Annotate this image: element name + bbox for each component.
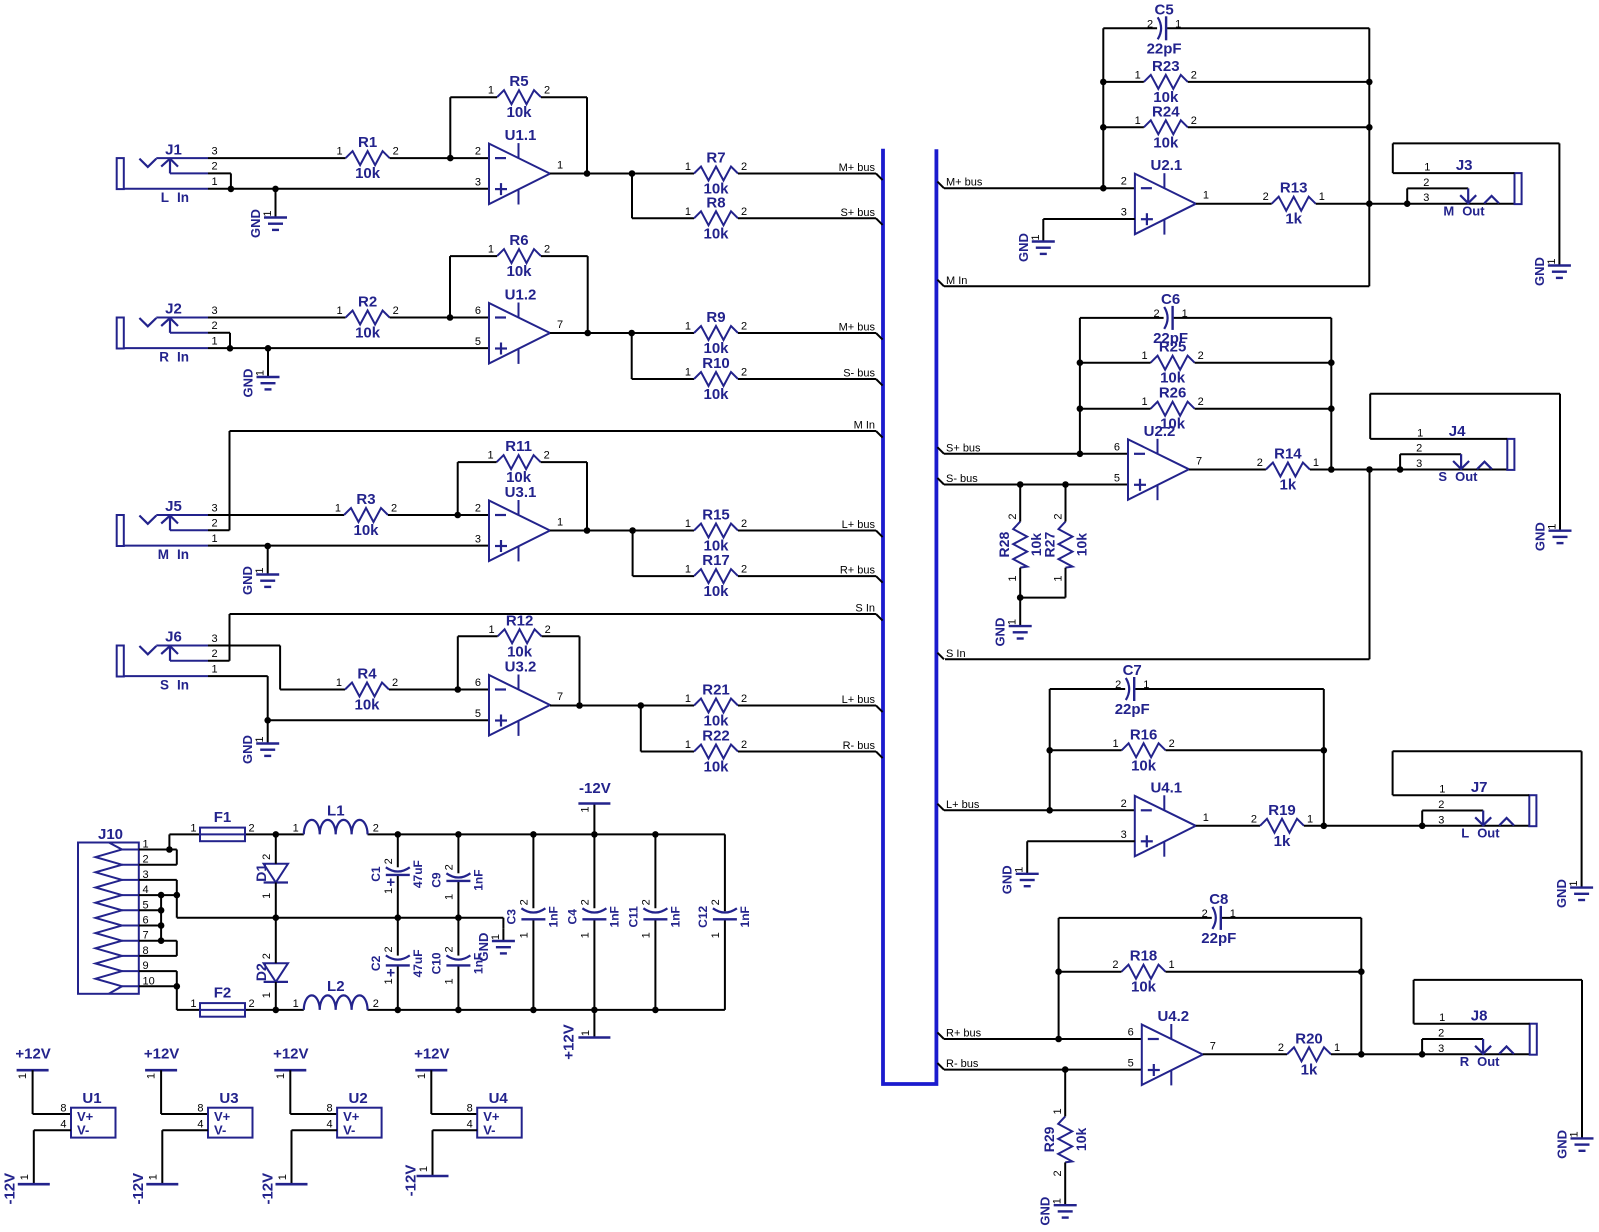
svg-text:2: 2 [1263,191,1269,203]
wire D1 bottom [275,883,277,918]
svg-text:1k: 1k [1274,833,1291,850]
op-amp U4.2 [1128,1008,1216,1085]
svg-text:-12V: -12V [130,1173,147,1205]
svg-text:8: 8 [467,1103,473,1115]
wire feedback left U3.1 [457,462,459,515]
svg-text:2: 2 [1112,959,1118,971]
wire R12 pin2 [542,635,580,637]
svg-text:3: 3 [1416,458,1422,470]
svg-text:J5: J5 [165,498,182,515]
svg-text:6: 6 [1128,1027,1134,1039]
svg-text:R1: R1 [358,134,377,151]
junction J3 step [1404,200,1411,207]
svg-text:10k: 10k [1131,979,1157,996]
wire C10 column [457,918,459,1010]
svg-text:R17: R17 [702,552,730,569]
svg-text:1: 1 [293,998,299,1010]
junction R16 right [1321,747,1328,754]
svg-text:U2.2: U2.2 [1144,423,1176,440]
svg-text:3: 3 [475,177,481,189]
wire R8 to bus S+ [738,217,876,219]
svg-text:2: 2 [1121,176,1127,188]
wire M In to bus [230,430,877,432]
svg-text:+12V: +12V [15,1046,50,1063]
svg-text:M+ bus: M+ bus [839,322,876,334]
svg-text:47uF: 47uF [411,860,425,888]
net labels left bus [839,162,876,752]
junction C10 bottom [455,1007,462,1014]
wire S In riser [229,614,231,661]
svg-text:1: 1 [1334,1042,1340,1054]
svg-text:47uF: 47uF [411,949,425,977]
svg-text:1: 1 [1424,162,1430,174]
junction J10 pin10 [174,983,181,990]
svg-text:10k: 10k [506,263,532,280]
junction J1 pin1 [228,186,235,193]
resistor R4 [336,666,398,714]
svg-text:1: 1 [146,1073,158,1079]
junction C9 bottom [455,914,462,921]
wire R22 to bus R- [738,751,876,753]
wire D2 bottom [275,982,277,1010]
svg-text:U2: U2 [349,1090,368,1107]
svg-text:S- bus: S- bus [946,473,978,485]
svg-text:2: 2 [1198,350,1204,362]
junction J10 pin4 b [174,892,181,899]
svg-text:R13: R13 [1280,180,1308,197]
svg-text:2: 2 [261,854,273,860]
svg-text:2: 2 [383,946,395,952]
svg-text:C11: C11 [627,906,641,928]
fuse F2 [190,984,254,1016]
wire U4.2 out to R20 [1203,1053,1287,1055]
resistor R29 [1041,1108,1089,1176]
output jack J7 (L Out) [1393,751,1594,908]
junction J5 gnd tap [264,543,271,550]
resistor R1 [336,134,398,182]
svg-text:S In: S In [855,603,875,615]
wire feedback right U2.1 [1368,28,1370,286]
svg-text:U3: U3 [219,1090,238,1107]
svg-text:1: 1 [1141,350,1147,362]
svg-text:2: 2 [249,822,255,834]
wire U2.1 pin3 [1043,218,1135,220]
svg-text:C9: C9 [430,872,444,888]
resistor R13 [1263,180,1325,228]
junction R29 top [1062,1066,1069,1073]
svg-text:2: 2 [518,899,530,905]
capacitor C7 [1115,662,1150,718]
svg-text:3: 3 [1438,814,1444,826]
svg-text:V-: V- [343,1123,355,1138]
input jack J6 (S In) [117,629,218,693]
capacitor C2 [369,946,425,984]
wire feedback left U3.2 [457,636,459,689]
svg-text:2: 2 [544,244,550,256]
wire C2 column [397,918,399,1010]
junction U1.1 out branch [629,170,636,177]
resistor R18 [1112,948,1174,996]
junction U3.1 out branch [629,527,636,534]
svg-text:1: 1 [254,567,266,573]
svg-text:GND: GND [241,369,256,398]
svg-text:1: 1 [518,932,530,938]
svg-text:C10: C10 [430,952,444,974]
resistor R16 [1112,726,1174,774]
wire feedback left U2.2 [1079,318,1081,454]
svg-text:R29: R29 [1041,1126,1057,1152]
op-amp U4.1 [1121,779,1209,856]
svg-text:1: 1 [1175,18,1181,30]
ground GND (U2.1 pin3) [1016,219,1055,262]
svg-text:2: 2 [545,624,551,636]
power flag -12V (rail) [578,780,610,834]
capacitor C11 [627,899,683,938]
svg-text:3: 3 [475,534,481,546]
junction C4 top [591,831,598,838]
junction U2.2 fb [1077,451,1084,458]
svg-text:3: 3 [1121,829,1127,841]
svg-text:5: 5 [1114,472,1120,484]
svg-text:2: 2 [741,161,747,173]
svg-text:10k: 10k [703,225,729,242]
svg-text:2: 2 [1438,799,1444,811]
resistor R3 [335,491,397,539]
svg-text:1: 1 [190,822,196,834]
svg-text:1: 1 [1546,258,1558,264]
svg-text:1: 1 [1141,396,1147,408]
svg-text:10k: 10k [353,522,379,539]
svg-text:1: 1 [1568,881,1580,887]
svg-text:C3: C3 [505,909,519,925]
wire J5 ring [208,529,230,531]
svg-text:1: 1 [685,564,691,576]
svg-text:1: 1 [1439,784,1445,796]
capacitor C10 [430,946,486,984]
junction R26 left [1077,405,1084,412]
svg-text:7: 7 [1196,455,1202,467]
svg-text:1: 1 [1313,457,1319,469]
svg-text:2: 2 [1251,813,1257,825]
wire R- bus to U4.2 pin5 [944,1069,1142,1071]
wire R1 to U1.1 pin2 [390,157,489,159]
wire R17 to bus R+ [738,575,876,577]
svg-text:1: 1 [1030,234,1042,240]
svg-text:10k: 10k [1153,134,1179,151]
junction U1.2 out branch [628,330,635,337]
svg-text:R5: R5 [509,73,528,90]
resistor R12 [488,612,550,660]
svg-text:M+ bus: M+ bus [839,162,876,174]
svg-text:1: 1 [487,450,493,462]
svg-text:6: 6 [475,677,481,689]
wire feedback right U2.2 [1330,318,1332,470]
svg-text:4: 4 [60,1118,66,1130]
junction J2 pin1 [227,345,234,352]
svg-text:1: 1 [1182,308,1188,320]
wire R26 pin2 [1195,408,1332,410]
resistor R24 [1135,103,1197,151]
junction D1 mid [273,914,280,921]
junction U3.2 out fb [576,702,583,709]
svg-text:3: 3 [212,503,218,515]
resistor R28 [996,514,1044,582]
wire M+ bus to U2.1 pin2 [944,187,1135,189]
wire R23 pin2 [1188,81,1370,83]
wire J5 sleeve to U3.1 pin3 [208,545,489,547]
junction R25 left [1077,359,1084,366]
svg-text:M: M [158,547,169,562]
svg-text:1: 1 [1014,867,1026,873]
svg-text:In: In [177,350,189,365]
wire S- bus to U2.2 pin5 [944,484,1128,486]
wire R25 pin1 [1080,362,1151,364]
svg-text:5: 5 [1128,1058,1134,1070]
svg-text:U4.1: U4.1 [1150,779,1182,796]
svg-text:1: 1 [490,934,502,940]
svg-text:R28: R28 [996,532,1012,558]
wire C8 top row [1059,917,1362,919]
wire R29 top [1064,1070,1066,1117]
junction out fb U4.1 [1321,823,1328,830]
svg-text:1: 1 [383,888,395,894]
resistor R15 [685,507,747,555]
svg-text:L1: L1 [327,802,345,819]
wire J6 sleeve to U3.2 pin5 [208,676,489,720]
junction R23 left [1100,79,1107,86]
bus (vertical signal bus) [883,149,936,1084]
wire feedback right U1.1 [586,97,588,173]
svg-text:1: 1 [557,517,563,529]
svg-text:V-: V- [77,1123,89,1138]
svg-text:1: 1 [293,822,299,834]
svg-text:2: 2 [1169,738,1175,750]
svg-text:J3: J3 [1456,157,1473,174]
wire U3.2 output [550,705,694,707]
wire S In to bus [230,613,877,615]
svg-text:-12V: -12V [402,1165,419,1197]
svg-text:U4.2: U4.2 [1157,1008,1189,1025]
capacitor C8 [1201,891,1236,947]
wire U4.1 pin3 [1027,840,1135,842]
wire R7 to bus M+ [738,173,876,175]
svg-text:R20: R20 [1295,1030,1323,1047]
svg-text:S+ bus: S+ bus [946,442,981,454]
junction C11 bottom [652,1007,659,1014]
svg-text:R: R [159,350,169,365]
svg-text:1k: 1k [1280,477,1297,494]
wire U2.1 out to R13 [1196,203,1272,205]
resistor R11 [487,438,549,486]
junction F2/D2/L2 [273,1007,280,1014]
svg-text:R2: R2 [358,294,377,311]
svg-text:2: 2 [741,518,747,530]
svg-text:1: 1 [488,624,494,636]
op-amp U2.1 [1121,157,1209,234]
junction out fb U2.1 [1366,200,1373,207]
svg-text:4: 4 [467,1118,473,1130]
svg-text:1: 1 [1417,427,1423,439]
svg-text:1k: 1k [1285,211,1302,228]
svg-text:GND: GND [248,209,263,238]
svg-text:R8: R8 [706,194,725,211]
svg-text:V+: V+ [343,1109,360,1124]
junction C4 bottom [591,1007,598,1014]
svg-text:C12: C12 [696,905,710,927]
junction U3.1 out fb [584,527,591,534]
wire J10 pin3 [139,880,177,895]
svg-text:Out: Out [1477,1054,1500,1069]
input jack J5 (M In) [117,498,218,562]
junction J2 gnd tap [265,345,272,352]
junction J8 step [1419,1051,1426,1058]
wire J10 pin9 [139,971,177,986]
wire R14 to J4 [1310,469,1507,471]
svg-text:In: In [177,678,189,693]
wire J2 ring to sleeve [208,333,230,349]
svg-text:M+ bus: M+ bus [946,177,983,189]
inductor L1 [293,802,379,834]
svg-text:1: 1 [443,978,455,984]
ground GND (supply) [476,929,515,962]
svg-text:U2.1: U2.1 [1151,157,1183,174]
svg-text:R27: R27 [1042,532,1058,558]
wire J2 tip to R2 [208,317,346,319]
svg-text:10k: 10k [354,697,380,714]
resistor R8 [685,194,747,242]
resistor R5 [488,73,550,121]
wire R11 pin2 [541,461,587,463]
junction U3.1 feedback [454,512,461,519]
wire J10 pin8 [139,955,177,957]
svg-text:L+ bus: L+ bus [842,694,876,706]
svg-text:R+ bus: R+ bus [946,1028,982,1040]
svg-text:1: 1 [416,1073,428,1079]
svg-text:1: 1 [335,503,341,515]
svg-text:7: 7 [557,319,563,331]
svg-text:1: 1 [212,533,218,545]
svg-text:S: S [160,678,169,693]
wire C3 column [532,834,534,1010]
svg-text:1: 1 [1052,1198,1064,1204]
svg-text:Out: Out [1455,469,1478,484]
junction J1 gnd tap [272,186,279,193]
svg-text:J6: J6 [165,629,182,646]
wire R12 pin1 [458,635,498,637]
svg-text:1: 1 [254,736,266,742]
svg-text:8: 8 [326,1103,332,1115]
resistor R22 [685,728,747,776]
svg-text:R26: R26 [1159,385,1187,402]
resistor R19 [1251,802,1313,850]
resistor R20 [1278,1030,1340,1078]
wire L+ bus to U4.1 pin2 [944,809,1135,811]
diode D1 [253,854,288,899]
svg-text:22pF: 22pF [1147,40,1182,57]
svg-text:V+: V+ [77,1109,94,1124]
svg-text:J8: J8 [1471,1008,1488,1025]
svg-text:2: 2 [1198,396,1204,408]
svg-text:10k: 10k [1074,533,1090,557]
svg-text:1: 1 [1203,812,1209,824]
svg-text:1: 1 [580,1030,592,1036]
junction R28 top [1017,481,1024,488]
wire S In feedback vertical [1369,470,1371,660]
svg-text:1nF: 1nF [546,906,560,927]
junction R18 left [1055,968,1062,975]
svg-text:2: 2 [249,998,255,1010]
svg-text:1: 1 [1112,738,1118,750]
svg-text:GND: GND [1555,1130,1570,1159]
svg-text:-12V: -12V [579,780,611,797]
svg-text:R19: R19 [1268,802,1296,819]
junction S In branch [1366,466,1373,473]
junction J10 pin6 [158,922,165,929]
svg-text:GND: GND [1554,879,1569,908]
wire D1 top [275,834,277,863]
svg-text:2: 2 [1438,1028,1444,1040]
wire M In feedback [944,285,1369,287]
junction U1.2 feedback [447,314,454,321]
svg-text:Out: Out [1462,203,1485,218]
wire C7 top row [1050,688,1324,690]
svg-text:GND: GND [993,618,1008,647]
svg-text:F2: F2 [214,984,232,1001]
svg-text:J4: J4 [1449,423,1466,440]
wire J10 pin10 [139,986,177,1010]
wire R24 pin1 [1103,126,1144,128]
svg-text:2: 2 [212,518,218,530]
wire R25 pin2 [1195,362,1332,364]
wire R18 pin1 [1166,971,1362,973]
svg-text:1nF: 1nF [607,906,621,927]
wire C4 column [593,834,595,1010]
svg-text:2: 2 [1191,69,1197,81]
svg-text:3: 3 [212,633,218,645]
svg-text:1: 1 [336,146,342,158]
svg-text:-12V: -12V [259,1173,276,1205]
svg-text:2: 2 [1053,514,1065,520]
wire R5 pin1 [450,96,497,98]
svg-text:1: 1 [1007,576,1019,582]
svg-text:2: 2 [383,858,395,864]
inductor L2 [293,978,379,1010]
svg-text:L2: L2 [327,978,345,995]
junction J4 step [1397,466,1404,473]
svg-text:R4: R4 [357,666,377,683]
wire R6 pin2 [541,255,588,257]
svg-text:2: 2 [1007,514,1019,520]
power pins U4 (+12V/-12V) [402,1046,521,1197]
svg-text:R9: R9 [706,309,725,326]
svg-text:In: In [177,547,189,562]
svg-text:3: 3 [1438,1043,1444,1055]
wire R27 top [1065,485,1067,522]
svg-text:C5: C5 [1155,1,1174,18]
svg-text:1: 1 [275,1073,287,1079]
svg-text:2: 2 [212,648,218,660]
svg-text:S: S [1438,469,1447,484]
wire J10 pins4-7 tie [160,895,162,941]
svg-text:U1.2: U1.2 [505,287,537,304]
svg-text:1: 1 [1547,524,1559,530]
svg-text:1: 1 [418,1166,430,1172]
svg-text:1: 1 [685,693,691,705]
wire feedback right U1.2 [587,256,589,333]
svg-text:1: 1 [488,244,494,256]
svg-text:1: 1 [1135,69,1141,81]
svg-text:V+: V+ [483,1109,500,1124]
